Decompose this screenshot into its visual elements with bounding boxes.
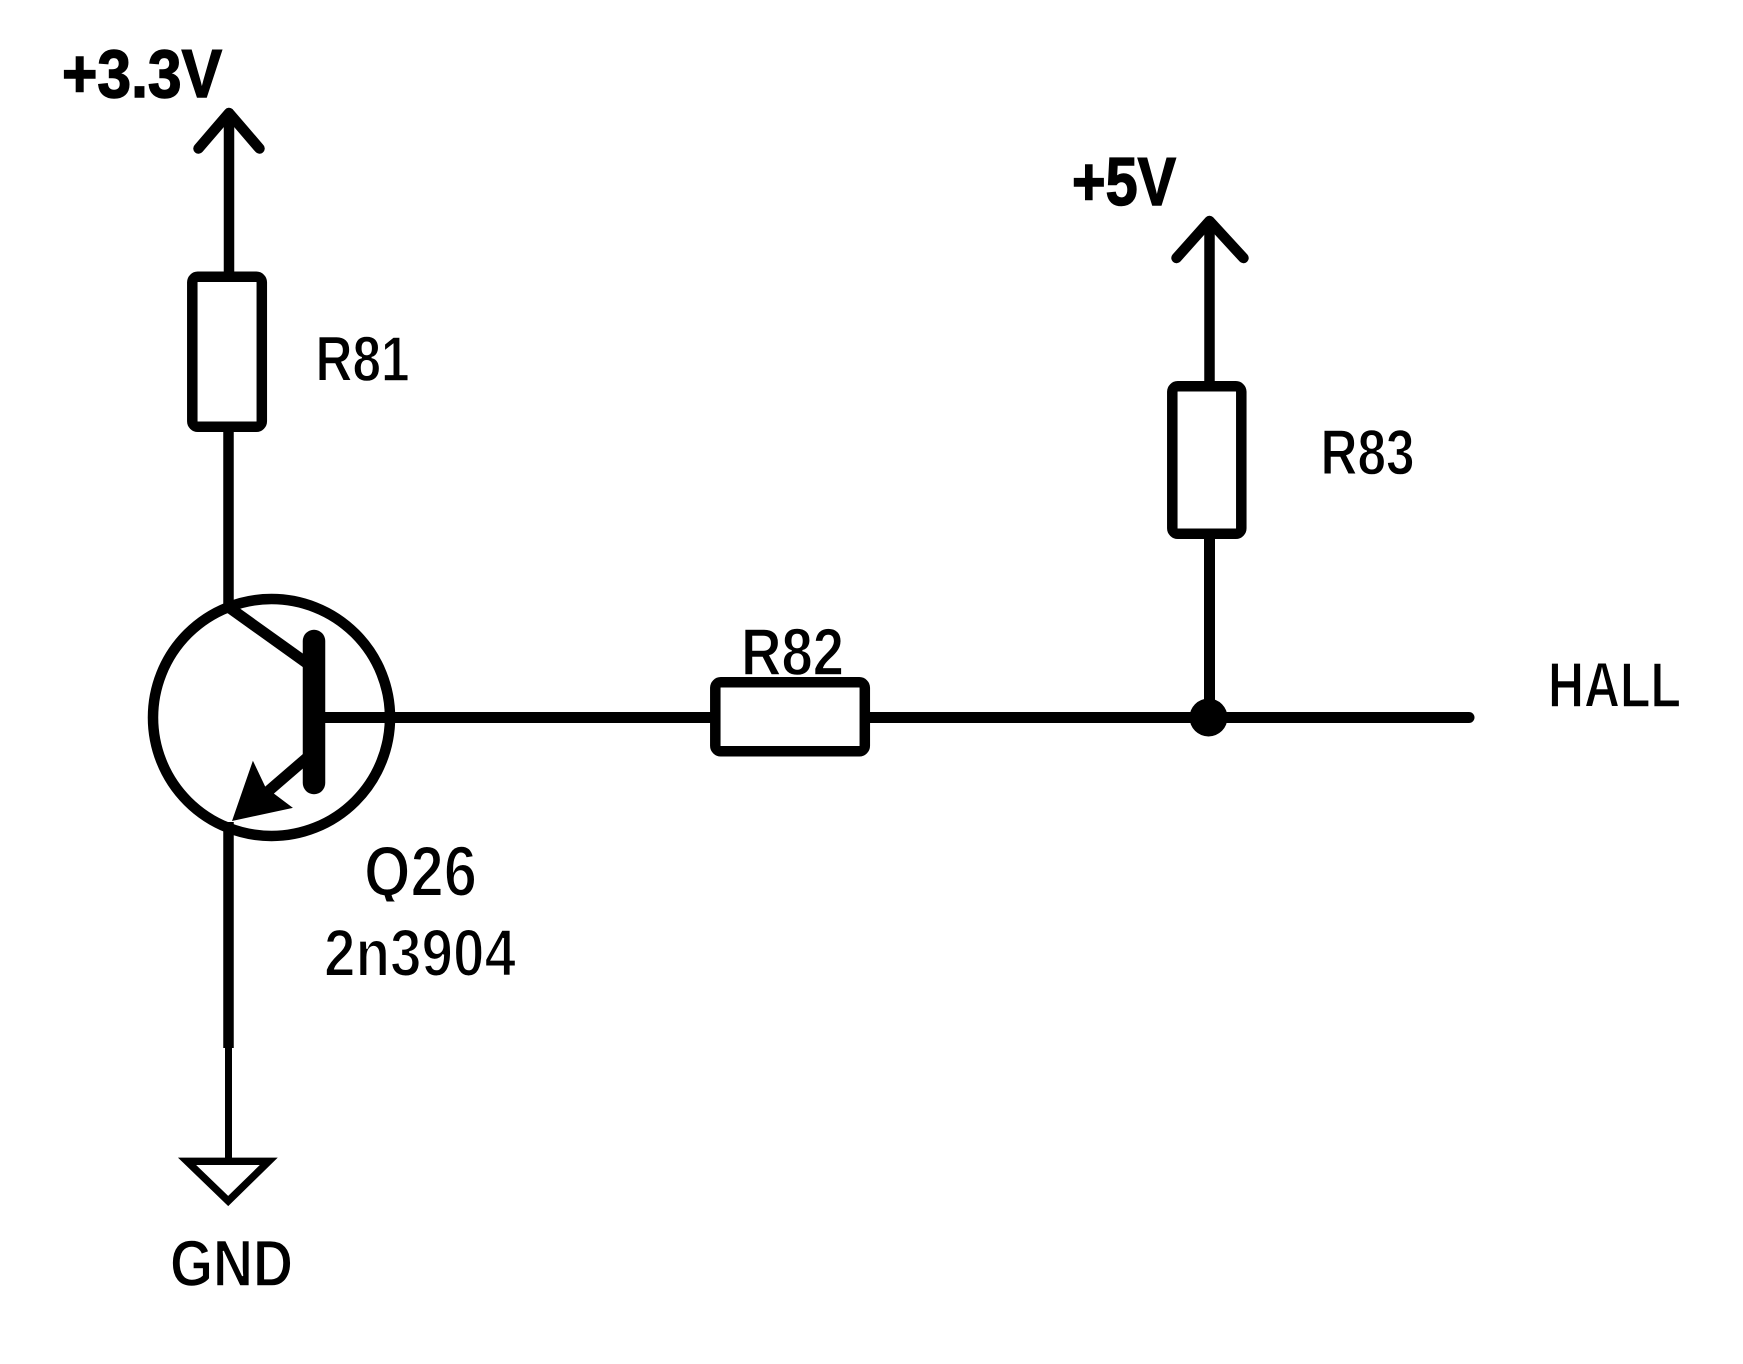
svg-text:+3.3V: +3.3V bbox=[62, 36, 222, 112]
svg-text:R81: R81 bbox=[316, 323, 410, 395]
svg-text:Q26: Q26 bbox=[364, 833, 477, 912]
svg-text:R83: R83 bbox=[1321, 417, 1415, 489]
svg-text:HALL: HALL bbox=[1548, 649, 1681, 721]
svg-text:2n3904: 2n3904 bbox=[324, 916, 516, 991]
svg-text:R82: R82 bbox=[741, 615, 844, 690]
svg-text:+5V: +5V bbox=[1072, 144, 1176, 220]
svg-text:GND: GND bbox=[170, 1226, 293, 1300]
